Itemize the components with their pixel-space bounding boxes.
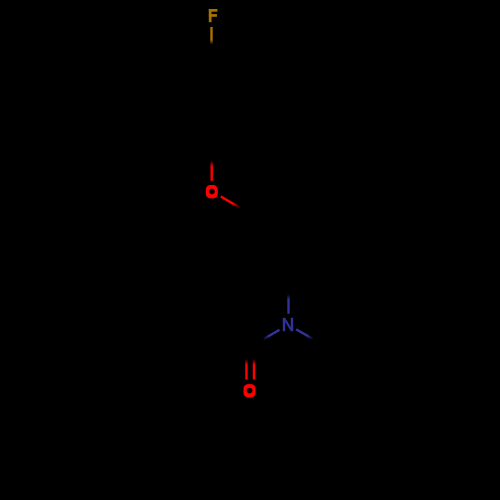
atom label N (ring nitrogen) (283, 318, 293, 331)
bond N-C(=O) diagonal left (blue half-bond) (263, 330, 280, 340)
atom label F (fluorine) (209, 9, 218, 22)
double bond C=O left line (red half) (245, 359, 247, 380)
bond C-O ether vertical (red half-bond) (210, 161, 212, 181)
bond O-CH2 diagonal (red half-bond) (221, 197, 241, 208)
atom label O (carbonyl oxygen) (244, 384, 256, 397)
atom label O (ether oxygen) (206, 185, 218, 198)
bond C-N vertical (blue half-bond) (287, 294, 289, 314)
double bond C=O right line (red half) (253, 359, 255, 380)
bond N-C diagonal right (blue half-bond) (296, 329, 313, 339)
bond F-C (gold half-bond) (210, 27, 212, 45)
